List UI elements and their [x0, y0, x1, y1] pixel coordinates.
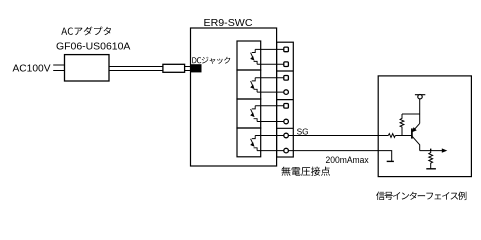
label 無電圧接点: [281, 167, 330, 176]
optocoupler PC1 output transistor: [251, 49, 258, 64]
ground bar (load): [426, 168, 436, 170]
wire base line: [395, 135, 412, 137]
terminal T7: [284, 133, 289, 138]
wire PC2 collector to terminal 3: [255, 77, 284, 79]
terminal block: [277, 42, 294, 157]
label 信号インターフェイス例: [376, 192, 466, 201]
optocoupler PC4 box: [237, 128, 261, 157]
wire AC input line lower: [53, 70, 64, 72]
svg-text:200mAmax: 200mAmax: [326, 155, 370, 165]
wire PC4 emitter to terminal 8: [257, 150, 284, 152]
terminal T2: [284, 62, 289, 67]
svg-text:GF06-US0610A: GF06-US0610A: [56, 41, 131, 52]
svg-text:AC100V: AC100V: [13, 64, 51, 75]
optocoupler PC2 output transistor: [251, 78, 258, 92]
terminal T4: [284, 90, 289, 95]
label DCジャック: [192, 57, 230, 64]
AC adapter box: [65, 55, 110, 81]
wire power vertical: [419, 99, 421, 124]
wire DC cable lower: [109, 70, 163, 72]
terminal T3: [284, 76, 289, 81]
optocoupler PC4 output transistor: [251, 136, 258, 151]
transistor Q1 collector: [412, 137, 419, 151]
power terminal bar: [415, 94, 425, 96]
wire PC1 collector to terminal 1: [255, 48, 284, 50]
terminal block divider 3: [277, 127, 294, 129]
DC plug body: [163, 64, 185, 72]
wire pull-up branch: [402, 113, 420, 115]
wire output line: [420, 150, 442, 152]
transistor Q1 emitter arrow: [412, 128, 416, 132]
terminal T5: [284, 104, 289, 109]
optocoupler PC1 box: [237, 41, 261, 70]
junction dot output/load: [430, 149, 432, 151]
optocoupler PC3 output transistor: [251, 106, 258, 122]
terminal T6: [284, 119, 289, 124]
terminal block divider 1: [277, 70, 294, 72]
wire 200mA line: [288, 151, 391, 162]
wire SG line: [288, 135, 388, 137]
wire PC3 collector to terminal 5: [255, 105, 284, 107]
main box ER9-SWC: [191, 28, 277, 166]
wire PC2 emitter to terminal 4: [257, 91, 284, 93]
terminal T8: [284, 148, 289, 153]
DC plug tip: [185, 67, 191, 71]
terminal block divider 2: [277, 99, 294, 101]
svg-text:ER9-SWC: ER9-SWC: [204, 18, 253, 29]
resistor pull-up: [400, 114, 404, 136]
DC jack (black): [190, 64, 201, 72]
ground bar (200mA line): [387, 160, 394, 162]
transistor Q1 emitter: [413, 123, 420, 131]
power terminal circle: [418, 95, 422, 99]
wire AC input line upper: [53, 64, 64, 66]
optocoupler PC3 box: [237, 99, 261, 128]
wire PC4 collector to terminal 7: [255, 135, 284, 137]
label ACアダプタ: [61, 27, 111, 36]
wire PC1 emitter to terminal 2: [257, 63, 284, 65]
resistor load: [429, 151, 433, 169]
output arrowhead: [442, 148, 448, 152]
resistor series (SG line): [388, 134, 395, 138]
signal interface example box: [378, 76, 471, 177]
wire PC3 emitter to terminal 6: [257, 121, 284, 123]
terminal T1: [284, 47, 289, 52]
wire DC cable upper: [109, 66, 163, 68]
transistor Q1 base bar: [411, 128, 413, 138]
optocoupler PC2 box: [237, 70, 261, 99]
